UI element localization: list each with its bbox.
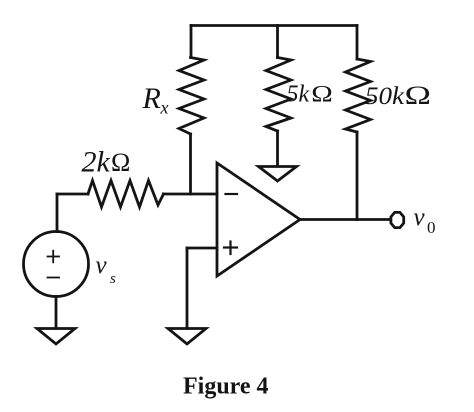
wire right drop to 50k xyxy=(356,26,359,60)
svg-text:v: v xyxy=(96,252,108,279)
voltage source label vs xyxy=(96,252,117,287)
voltage source vs xyxy=(24,232,89,297)
resistor 50k label xyxy=(365,81,431,110)
resistor 5k label xyxy=(287,82,333,108)
svg-text:5k: 5k xyxy=(287,82,310,108)
svg-text:Ω: Ω xyxy=(111,148,130,177)
resistor 5k xyxy=(266,58,291,132)
wire noninverting input xyxy=(187,247,217,250)
resistor 2k label xyxy=(82,146,131,179)
ground below noninverting input xyxy=(168,329,206,345)
svg-text:R: R xyxy=(142,82,161,115)
wire output xyxy=(300,218,390,221)
wire inverting input right segment xyxy=(164,193,218,196)
ground below source xyxy=(37,329,75,345)
op-amp U1 xyxy=(217,163,300,276)
output label v0 xyxy=(414,204,436,237)
caption Figure 4 xyxy=(183,374,269,400)
svg-text:Ω: Ω xyxy=(405,81,432,110)
resistor 50k xyxy=(346,59,371,132)
wire 5k bottom stem xyxy=(276,131,279,166)
voltage source minus sign xyxy=(48,277,60,279)
wire mid drop to 5k xyxy=(276,26,279,58)
resistor Rx xyxy=(179,58,204,135)
svg-text:2k: 2k xyxy=(82,146,111,179)
voltage source plus sign xyxy=(48,251,60,263)
svg-text:x: x xyxy=(160,98,169,118)
svg-text:Figure 4: Figure 4 xyxy=(183,374,269,400)
wire inverting input left segment xyxy=(57,193,88,196)
resistor 2k xyxy=(88,181,164,208)
wire top rail xyxy=(191,24,357,27)
op-amp plus sign xyxy=(224,242,237,255)
wire left drop to Rx xyxy=(190,26,193,58)
svg-text:s: s xyxy=(110,271,116,287)
wire noninverting drop xyxy=(186,248,189,329)
output terminal xyxy=(391,212,404,227)
wire source top drop xyxy=(56,194,59,232)
wire source bottom stem xyxy=(55,297,58,329)
svg-text:50k: 50k xyxy=(365,83,405,110)
svg-text:Ω: Ω xyxy=(311,82,333,107)
op-amp minus sign xyxy=(226,193,238,195)
resistor Rx label xyxy=(142,82,169,118)
wire Rx bottom stem xyxy=(189,134,192,194)
ground below 5k xyxy=(259,167,297,182)
svg-text:v: v xyxy=(414,204,426,231)
wire 50k bottom stem xyxy=(356,132,359,220)
svg-text:0: 0 xyxy=(427,218,436,237)
